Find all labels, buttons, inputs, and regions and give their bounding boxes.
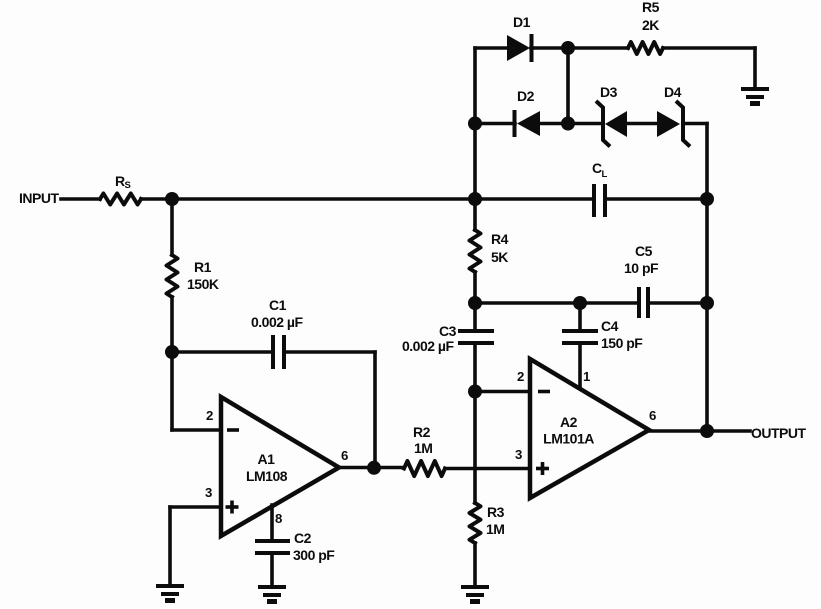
svg-text:2: 2: [206, 408, 213, 423]
svg-text:L: L: [602, 169, 608, 180]
svg-text:0.002 µF: 0.002 µF: [402, 338, 454, 354]
svg-text:R1: R1: [194, 259, 212, 275]
svg-text:3: 3: [205, 485, 212, 500]
svg-text:A2: A2: [560, 414, 578, 430]
svg-text:C1: C1: [269, 297, 287, 313]
svg-text:C2: C2: [294, 530, 312, 546]
svg-text:LM108: LM108: [246, 468, 288, 484]
svg-text:0.002 µF: 0.002 µF: [251, 314, 303, 330]
svg-text:1M: 1M: [414, 440, 432, 456]
svg-text:C: C: [592, 160, 602, 176]
svg-text:10 pF: 10 pF: [624, 260, 659, 276]
svg-text:D2: D2: [517, 88, 535, 104]
svg-text:C3: C3: [439, 323, 457, 339]
svg-text:C5: C5: [635, 243, 653, 259]
svg-text:8: 8: [275, 511, 282, 526]
svg-text:6: 6: [341, 448, 348, 463]
svg-text:D1: D1: [513, 14, 531, 30]
svg-text:3: 3: [515, 447, 522, 462]
svg-text:R4: R4: [491, 231, 509, 247]
svg-text:OUTPUT: OUTPUT: [751, 425, 807, 441]
svg-text:S: S: [125, 180, 131, 191]
svg-text:2K: 2K: [642, 17, 659, 33]
svg-text:150K: 150K: [187, 276, 219, 292]
svg-text:D3: D3: [600, 84, 618, 100]
svg-text:INPUT: INPUT: [19, 190, 59, 206]
svg-text:LM101A: LM101A: [543, 431, 594, 447]
svg-text:2: 2: [517, 369, 524, 384]
svg-text:A1: A1: [258, 451, 276, 467]
svg-text:R: R: [115, 173, 125, 189]
svg-text:5K: 5K: [491, 249, 508, 265]
svg-text:6: 6: [649, 408, 656, 423]
svg-text:R3: R3: [487, 504, 505, 520]
svg-text:1M: 1M: [486, 521, 504, 537]
svg-text:C4: C4: [601, 318, 619, 334]
svg-text:D4: D4: [664, 84, 682, 100]
svg-text:300 pF: 300 pF: [293, 547, 335, 563]
svg-text:150 pF: 150 pF: [601, 335, 643, 351]
svg-text:1: 1: [583, 369, 590, 384]
svg-text:R5: R5: [642, 0, 660, 15]
svg-text:R2: R2: [413, 424, 431, 440]
